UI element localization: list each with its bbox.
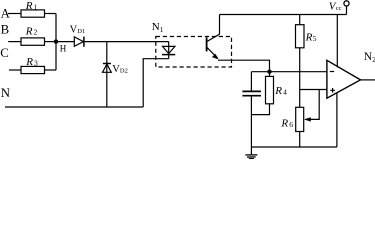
capacitor C1: [242, 72, 261, 147]
diode VD2: [103, 64, 128, 76]
wire op-amp output N2: [361, 79, 375, 81]
svg-text:D1: D1: [77, 28, 85, 35]
svg-text:D2: D2: [120, 68, 128, 75]
svg-text:6: 6: [289, 120, 293, 129]
svg-text:R: R: [25, 25, 33, 37]
wire ground rail: [251, 146, 337, 148]
ground: [245, 147, 257, 159]
arrowhead wiper: [304, 117, 311, 121]
wire vertical bus joining R1 R2 R3: [55, 14, 57, 71]
resistor R4: [266, 72, 288, 104]
svg-text:1: 1: [34, 2, 38, 11]
wire R3 to bus: [45, 69, 57, 71]
wire R6 wiper branch: [307, 90, 320, 120]
wire top rail: [220, 14, 347, 16]
svg-text:B: B: [1, 23, 10, 37]
svg-text:R: R: [25, 56, 33, 68]
svg-text:5: 5: [313, 34, 317, 43]
node H label: [60, 43, 67, 53]
node junction dot: [267, 70, 271, 74]
svg-text:2: 2: [34, 28, 38, 37]
wire C to R3: [9, 69, 21, 71]
svg-text:N: N: [152, 21, 160, 33]
svg-text:R: R: [305, 32, 313, 44]
svg-text:4: 4: [283, 88, 287, 97]
wire non-inverting input line: [300, 89, 327, 91]
wire R4 bottom to capacitor wire: [251, 104, 269, 115]
wire emitter to node: [218, 60, 270, 71]
optocoupler N1 dashed box: [152, 21, 232, 67]
node B label: [1, 23, 10, 37]
terminal Vcc: [329, 0, 349, 14]
wire A to R1: [8, 13, 21, 15]
optocoupler phototransistor: [207, 34, 220, 59]
op-amp N2: [327, 51, 375, 98]
node A label: [1, 7, 11, 21]
wire R1 to bus: [45, 13, 57, 15]
wire R5 down through cross to R6: [299, 48, 301, 108]
node C label: [0, 46, 9, 60]
svg-text:R: R: [25, 0, 33, 12]
wire B to R2: [8, 41, 21, 43]
resistor R1: [21, 0, 45, 17]
wire op-amp V+ supply: [336, 15, 338, 68]
wire op-amp V- to ground rail: [336, 93, 338, 147]
resistor R3: [21, 56, 45, 74]
svg-text:C: C: [0, 46, 9, 60]
svg-text:R: R: [280, 117, 288, 129]
svg-text:N: N: [1, 86, 10, 100]
node N label: [1, 86, 10, 100]
wire H to VD1: [56, 41, 74, 43]
wire inverting input node line: [251, 71, 326, 73]
svg-text:3: 3: [34, 59, 38, 68]
wire N line: [5, 106, 143, 108]
resistor R5: [296, 15, 317, 48]
wire R2 to bus: [45, 41, 57, 43]
wire R6 to ground rail: [299, 132, 301, 148]
diode VD1: [70, 24, 86, 47]
resistor R2: [21, 25, 45, 45]
node H junction dot: [54, 39, 58, 43]
svg-text:cc: cc: [336, 5, 342, 12]
svg-text:1: 1: [160, 25, 164, 34]
optocoupler LED: [162, 42, 175, 59]
svg-text:R: R: [274, 85, 282, 97]
wire LED cathode to N line: [143, 59, 169, 107]
potentiometer R6: [280, 107, 303, 131]
wire tap down through VD2 to N line: [106, 42, 108, 107]
wire collector to top rail: [219, 15, 221, 35]
wire VD1 to optocoupler LED: [85, 41, 169, 43]
svg-text:H: H: [60, 43, 67, 53]
